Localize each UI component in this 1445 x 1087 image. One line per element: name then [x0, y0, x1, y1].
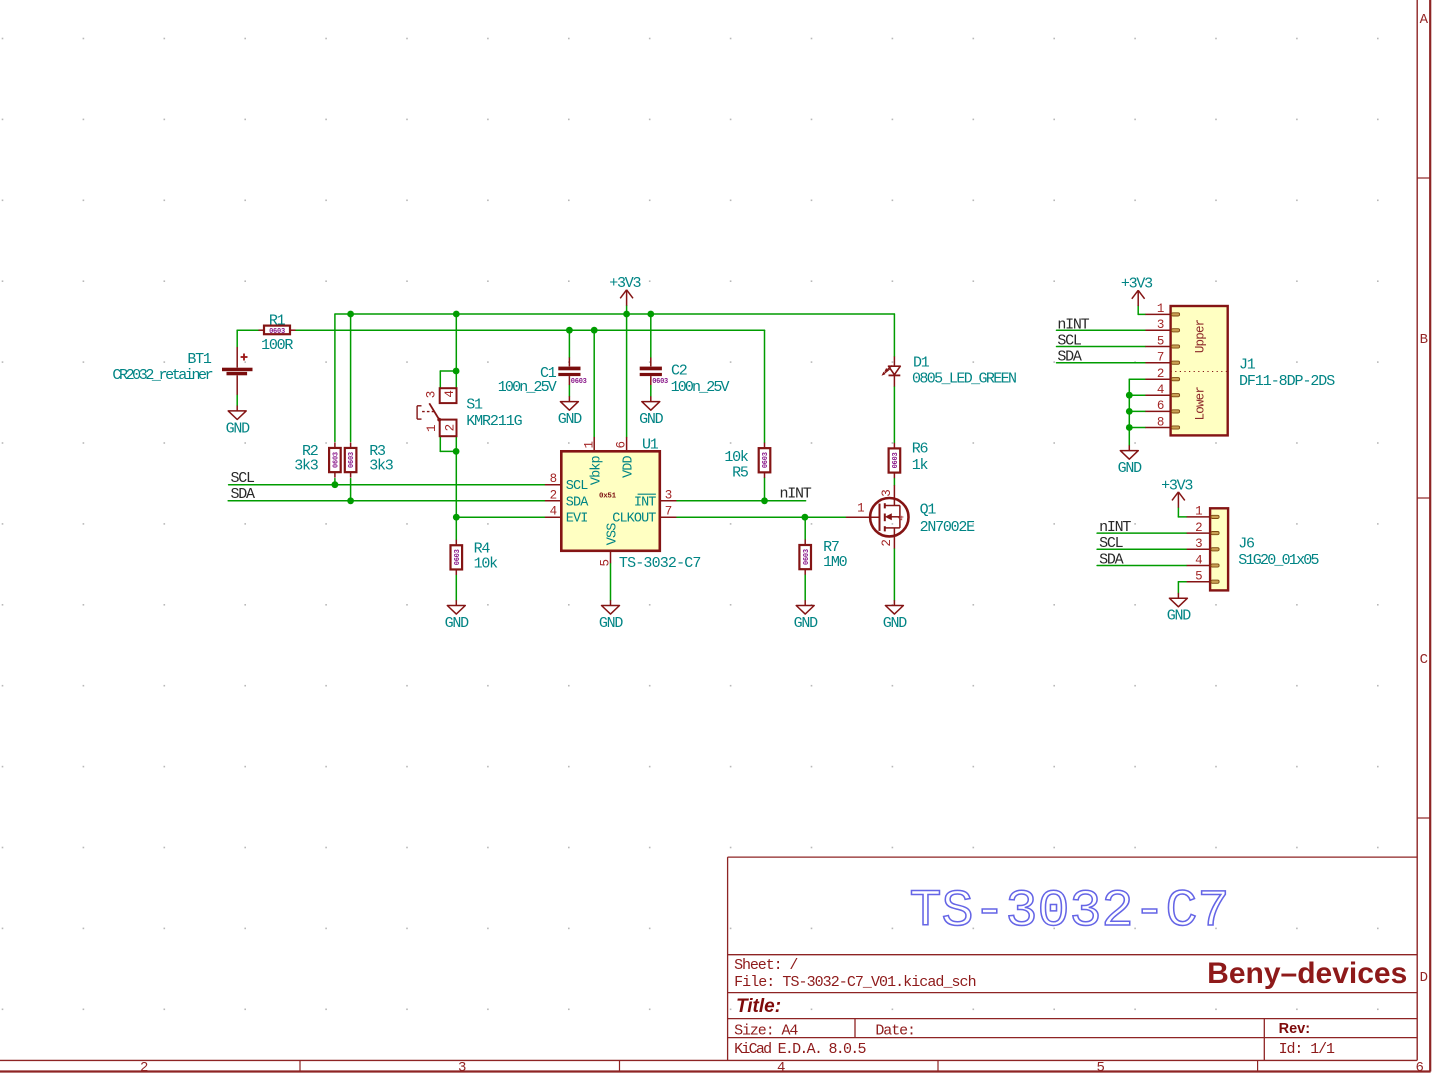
resistor R3 3k3 — [345, 442, 394, 477]
junction R3/+3V3 — [347, 311, 354, 318]
svg-text:SCL: SCL — [1057, 332, 1082, 349]
U1 pin 3 INT — [660, 500, 677, 502]
wire J6 SDA — [1097, 565, 1187, 567]
wire EVI — [456, 516, 545, 518]
resistor R5 10k — [724, 443, 770, 482]
wire C2 bottom — [650, 385, 652, 396]
U1 pin 2 SDA — [545, 500, 561, 502]
svg-text:100n_25V: 100n_25V — [671, 379, 730, 396]
wire J6 SCL — [1097, 548, 1187, 550]
svg-text:3: 3 — [1157, 318, 1164, 332]
svg-text:1k: 1k — [912, 457, 929, 474]
wire Vbkp rail from R1 — [296, 329, 765, 331]
U1 pin 7 CLKOUT — [660, 516, 677, 518]
svg-text:3: 3 — [880, 490, 894, 497]
U1 pin 1 Vbkp — [593, 437, 595, 451]
svg-text:Date:: Date: — [875, 1022, 915, 1039]
svg-text:SDA: SDA — [1099, 551, 1124, 568]
svg-text:KiCad E.D.A. 8.0.5: KiCad E.D.A. 8.0.5 — [734, 1041, 866, 1058]
svg-text:6: 6 — [1416, 1060, 1424, 1076]
wire Vbkp to U1 pin1 — [593, 330, 595, 437]
svg-text:BT1: BT1 — [187, 351, 212, 368]
wire R1 left to battery — [237, 329, 258, 331]
wire C1 top — [568, 330, 570, 357]
wire J1 pin2 gnd — [1129, 378, 1145, 380]
svg-text:6: 6 — [615, 442, 629, 449]
svg-text:3: 3 — [1195, 537, 1202, 551]
svg-text:Id: 1/1: Id: 1/1 — [1279, 1041, 1335, 1058]
wire J1 pin8 gnd — [1129, 427, 1145, 429]
wire battery top — [236, 330, 238, 347]
wire nINT from U1 pin3 — [676, 500, 805, 502]
wire S1 bypass top drop — [439, 371, 441, 388]
switch S1 KMR211G — [417, 388, 523, 436]
junction J1 gnd pin6 — [1126, 408, 1133, 415]
J1 pin 3 — [1145, 329, 1170, 331]
resistor R7 1M0 — [799, 539, 847, 575]
resistor R2 3k3 — [294, 442, 340, 477]
U1 pin 6 VDD — [626, 437, 628, 451]
J6 pin 1 — [1187, 516, 1210, 518]
svg-text:Size: A4: Size: A4 — [734, 1022, 798, 1039]
svg-text:SDA: SDA — [1057, 349, 1082, 366]
svg-text:nINT: nINT — [1057, 316, 1089, 333]
svg-text:File: TS-3032-C7_V01.kicad_sch: File: TS-3032-C7_V01.kicad_sch — [734, 974, 975, 991]
junction J1 gnd pin8 — [1126, 424, 1133, 431]
svg-text:INT: INT — [634, 495, 656, 510]
wire R3 top — [350, 314, 352, 442]
svg-text:7: 7 — [1157, 351, 1164, 365]
wire J6 gnd drop — [1177, 582, 1179, 593]
svg-text:A: A — [1420, 12, 1429, 28]
junction S1/+3V3 — [453, 311, 460, 318]
wire D1 to R6 — [893, 387, 895, 443]
J1 pin 2 — [1145, 378, 1170, 380]
ground R7 — [794, 600, 819, 632]
resistor R1 100R — [259, 312, 296, 354]
svg-text:3: 3 — [458, 1060, 466, 1076]
ground C1 — [558, 396, 583, 428]
svg-text:1: 1 — [1157, 302, 1164, 316]
J1 pin 8 — [1145, 427, 1170, 429]
connector J1 DF11-8DP-2DS — [1145, 302, 1335, 435]
U1 pin 5 VSS — [610, 551, 612, 563]
ground BT1 — [226, 406, 251, 438]
wire J1 pin4 gnd — [1129, 394, 1145, 396]
svg-text:6: 6 — [1157, 399, 1164, 413]
svg-text:2: 2 — [140, 1060, 148, 1076]
wire R3 bottom — [350, 479, 352, 501]
junction R3/SDA — [347, 497, 354, 504]
wire +3V3 rail — [335, 313, 894, 315]
J1 pin 4 — [1145, 394, 1170, 396]
svg-text:KMR211G: KMR211G — [466, 413, 522, 430]
junction S1 bottom — [453, 448, 460, 455]
svg-text:J6: J6 — [1238, 535, 1255, 552]
svg-text:1M0: 1M0 — [823, 554, 848, 571]
svg-text:Lower: Lower — [1194, 387, 1208, 421]
svg-text:SCL: SCL — [1099, 535, 1124, 552]
svg-text:2N7002E: 2N7002E — [920, 519, 976, 536]
junction R7/CLKOUT — [802, 514, 809, 521]
wire C1 bottom — [568, 385, 570, 396]
wire SCL bus — [229, 484, 545, 486]
svg-text:1: 1 — [1195, 505, 1202, 519]
svg-text:1: 1 — [582, 442, 596, 449]
svg-text:2: 2 — [880, 540, 894, 547]
svg-text:C2: C2 — [671, 362, 687, 379]
wire C2 top — [650, 314, 652, 358]
junction S1 top — [453, 368, 460, 375]
wire S1 bypass bottom — [440, 450, 456, 452]
wire S1 bypass bottom rise — [439, 436, 441, 451]
svg-text:8: 8 — [550, 472, 557, 486]
svg-text:Q1: Q1 — [920, 501, 937, 518]
title block frame — [728, 857, 1418, 1060]
battery BT1 CR2032_retainer — [112, 347, 252, 395]
wire VSS to GND — [610, 563, 612, 600]
svg-text:3: 3 — [665, 488, 672, 502]
junction R2/SCL — [332, 481, 339, 488]
ground R4 — [445, 600, 470, 632]
wire J6 +3V3 drop — [1177, 508, 1179, 517]
svg-text:2: 2 — [1195, 521, 1202, 535]
U1 pin 8 SCL — [545, 484, 561, 486]
svg-text:3k3: 3k3 — [369, 457, 394, 474]
svg-text:DF11-8DP-2DS: DF11-8DP-2DS — [1239, 373, 1335, 390]
svg-text:7: 7 — [665, 505, 672, 519]
svg-text:S1: S1 — [466, 397, 483, 414]
wire J1 gnd bus — [1128, 379, 1130, 445]
wire J6 pin5 gnd — [1178, 581, 1186, 583]
svg-text:100n_25V: 100n_25V — [498, 379, 557, 396]
resistor R6 1k — [889, 440, 929, 478]
power +3V3 J6 — [1161, 477, 1193, 507]
svg-text:U1: U1 — [642, 436, 659, 453]
wire J1 SCL — [1057, 346, 1146, 348]
junction EVI — [453, 514, 460, 521]
svg-text:R1: R1 — [269, 312, 286, 329]
svg-text:5: 5 — [599, 560, 613, 567]
J6 pin 2 — [1187, 532, 1210, 534]
power +3V3 main — [609, 275, 641, 305]
wire S1 column lower — [455, 436, 457, 517]
wire battery bottom — [236, 395, 238, 406]
ground J1 — [1118, 445, 1143, 477]
svg-text:SCL: SCL — [566, 479, 588, 494]
transistor Q1 2N7002E — [846, 485, 975, 548]
wire S1 column upper — [455, 314, 457, 388]
svg-text:D: D — [1420, 970, 1428, 986]
ground J6 — [1167, 593, 1192, 625]
svg-text:2: 2 — [444, 424, 458, 431]
svg-text:1: 1 — [857, 501, 864, 515]
wire J6 pin1 — [1178, 516, 1186, 518]
svg-text:3k3: 3k3 — [294, 457, 319, 474]
wire SDA bus — [228, 500, 545, 502]
J1 pin 7 — [1145, 362, 1170, 364]
power +3V3 J1 — [1121, 276, 1153, 306]
capacitor C2 100n_25V — [640, 358, 730, 396]
svg-text:SCL: SCL — [231, 470, 256, 487]
wire R2 top — [334, 314, 336, 442]
svg-text:Vbkp: Vbkp — [589, 456, 604, 486]
frame row letters — [1420, 12, 1429, 986]
wire S1 bypass top — [440, 370, 456, 372]
svg-text:4: 4 — [550, 505, 557, 519]
svg-text:5: 5 — [1195, 570, 1202, 584]
ground Q1 — [883, 600, 908, 632]
svg-text:2: 2 — [1157, 367, 1164, 381]
drain pin — [893, 485, 895, 505]
svg-text:Rev:: Rev: — [1279, 1021, 1310, 1037]
svg-text:Title:: Title: — [736, 996, 781, 1017]
gate pin — [846, 516, 880, 518]
wire R4 bottom — [455, 575, 457, 600]
svg-text:Upper: Upper — [1194, 319, 1208, 353]
svg-text:100R: 100R — [261, 337, 293, 354]
svg-text:2: 2 — [550, 488, 557, 502]
svg-text:S1G20_01x05: S1G20_01x05 — [1238, 552, 1319, 569]
capacitor C1 100n_25V — [498, 358, 587, 396]
svg-text:EVI: EVI — [566, 512, 588, 527]
ground C2 — [639, 396, 664, 428]
source pin — [893, 528, 895, 549]
svg-text:nINT: nINT — [780, 485, 812, 502]
J6 pin 5 — [1187, 581, 1210, 583]
svg-text:VDD: VDD — [622, 456, 637, 478]
svg-text:nINT: nINT — [1099, 519, 1131, 536]
J1 pin 5 — [1145, 346, 1170, 348]
wire J1 pin1 — [1138, 313, 1145, 315]
svg-text:J1: J1 — [1239, 357, 1256, 374]
junction U1 pin1/Vbkp — [591, 327, 598, 334]
svg-text:CR2032_retainer: CR2032_retainer — [112, 367, 212, 384]
svg-text:4: 4 — [1195, 553, 1202, 567]
svg-text:0x51: 0x51 — [599, 492, 617, 500]
wire R4 top — [455, 517, 457, 540]
wire R7 bottom — [804, 575, 806, 601]
svg-text:0603: 0603 — [652, 378, 668, 386]
svg-text:Sheet: /: Sheet: / — [734, 957, 798, 974]
LED D1 0805_LED_GREEN — [882, 355, 1017, 388]
svg-text:SDA: SDA — [231, 486, 256, 503]
wire J1 pin6 gnd — [1129, 410, 1145, 412]
wire R2 bottom — [334, 479, 336, 485]
wire J1 nINT — [1057, 329, 1146, 331]
svg-text:Beny–devices: Beny–devices — [1207, 957, 1407, 990]
J1 pin 1 — [1145, 313, 1170, 315]
junction J1 gnd pin4 — [1126, 392, 1133, 399]
junction +3V3 arrow — [623, 311, 630, 318]
svg-text:5: 5 — [1157, 334, 1164, 348]
U1 pin 4 EVI — [545, 516, 561, 518]
svg-text:10k: 10k — [724, 449, 749, 466]
svg-text:1: 1 — [425, 425, 439, 432]
wire +3V3 to U1 pin6 — [626, 306, 628, 437]
frame column numbers — [140, 1060, 1424, 1076]
wire +3V3 rail corner to D1 — [893, 314, 895, 357]
svg-text:R5: R5 — [732, 464, 749, 481]
svg-text:10k: 10k — [474, 555, 499, 572]
svg-text:4: 4 — [1157, 383, 1164, 397]
svg-text:SDA: SDA — [566, 495, 589, 510]
wire Q1 source to GND — [893, 549, 895, 601]
J1 pin 6 — [1145, 410, 1170, 412]
svg-text:0805_LED_GREEN: 0805_LED_GREEN — [912, 370, 1016, 387]
svg-text:8: 8 — [1157, 415, 1164, 429]
svg-text:4: 4 — [896, 515, 906, 520]
junction C1/Vbkp — [566, 327, 573, 334]
wire R5 bottom to nINT — [764, 478, 766, 501]
wire R7 top — [804, 517, 806, 539]
wire J1 +3V3 drop — [1137, 306, 1139, 315]
J6 pin 4 — [1187, 565, 1210, 567]
svg-text:C: C — [1420, 652, 1428, 668]
wire J1 SDA — [1057, 362, 1146, 364]
IC U1 TS-3032-C7 RTC — [545, 436, 701, 572]
J6 pin 3 — [1187, 548, 1210, 550]
svg-text:5: 5 — [1097, 1060, 1105, 1076]
svg-text:3: 3 — [424, 391, 438, 398]
resistor R4 10k — [451, 540, 499, 575]
junction R5/nINT — [761, 497, 768, 504]
wire Vbkp corner to R5 — [764, 330, 766, 443]
svg-text:D1: D1 — [913, 355, 930, 372]
connector J6 S1G20_01x05 — [1187, 505, 1320, 591]
svg-text:0603: 0603 — [571, 378, 587, 386]
wire R6 to Q1 drain — [893, 478, 895, 485]
svg-text:4: 4 — [777, 1060, 785, 1076]
svg-text:B: B — [1420, 332, 1428, 348]
svg-text:R6: R6 — [912, 440, 929, 457]
wire J6 nINT — [1097, 532, 1187, 534]
svg-text:4: 4 — [443, 391, 457, 398]
svg-text:TS-3032-C7: TS-3032-C7 — [619, 555, 701, 572]
junction C2/+3V3 — [647, 311, 654, 318]
ground U1 VSS — [599, 600, 624, 632]
svg-text:VSS: VSS — [605, 523, 620, 545]
svg-text:TS-3032-C7: TS-3032-C7 — [910, 882, 1230, 941]
wire CLKOUT from U1 pin7 — [676, 516, 846, 518]
